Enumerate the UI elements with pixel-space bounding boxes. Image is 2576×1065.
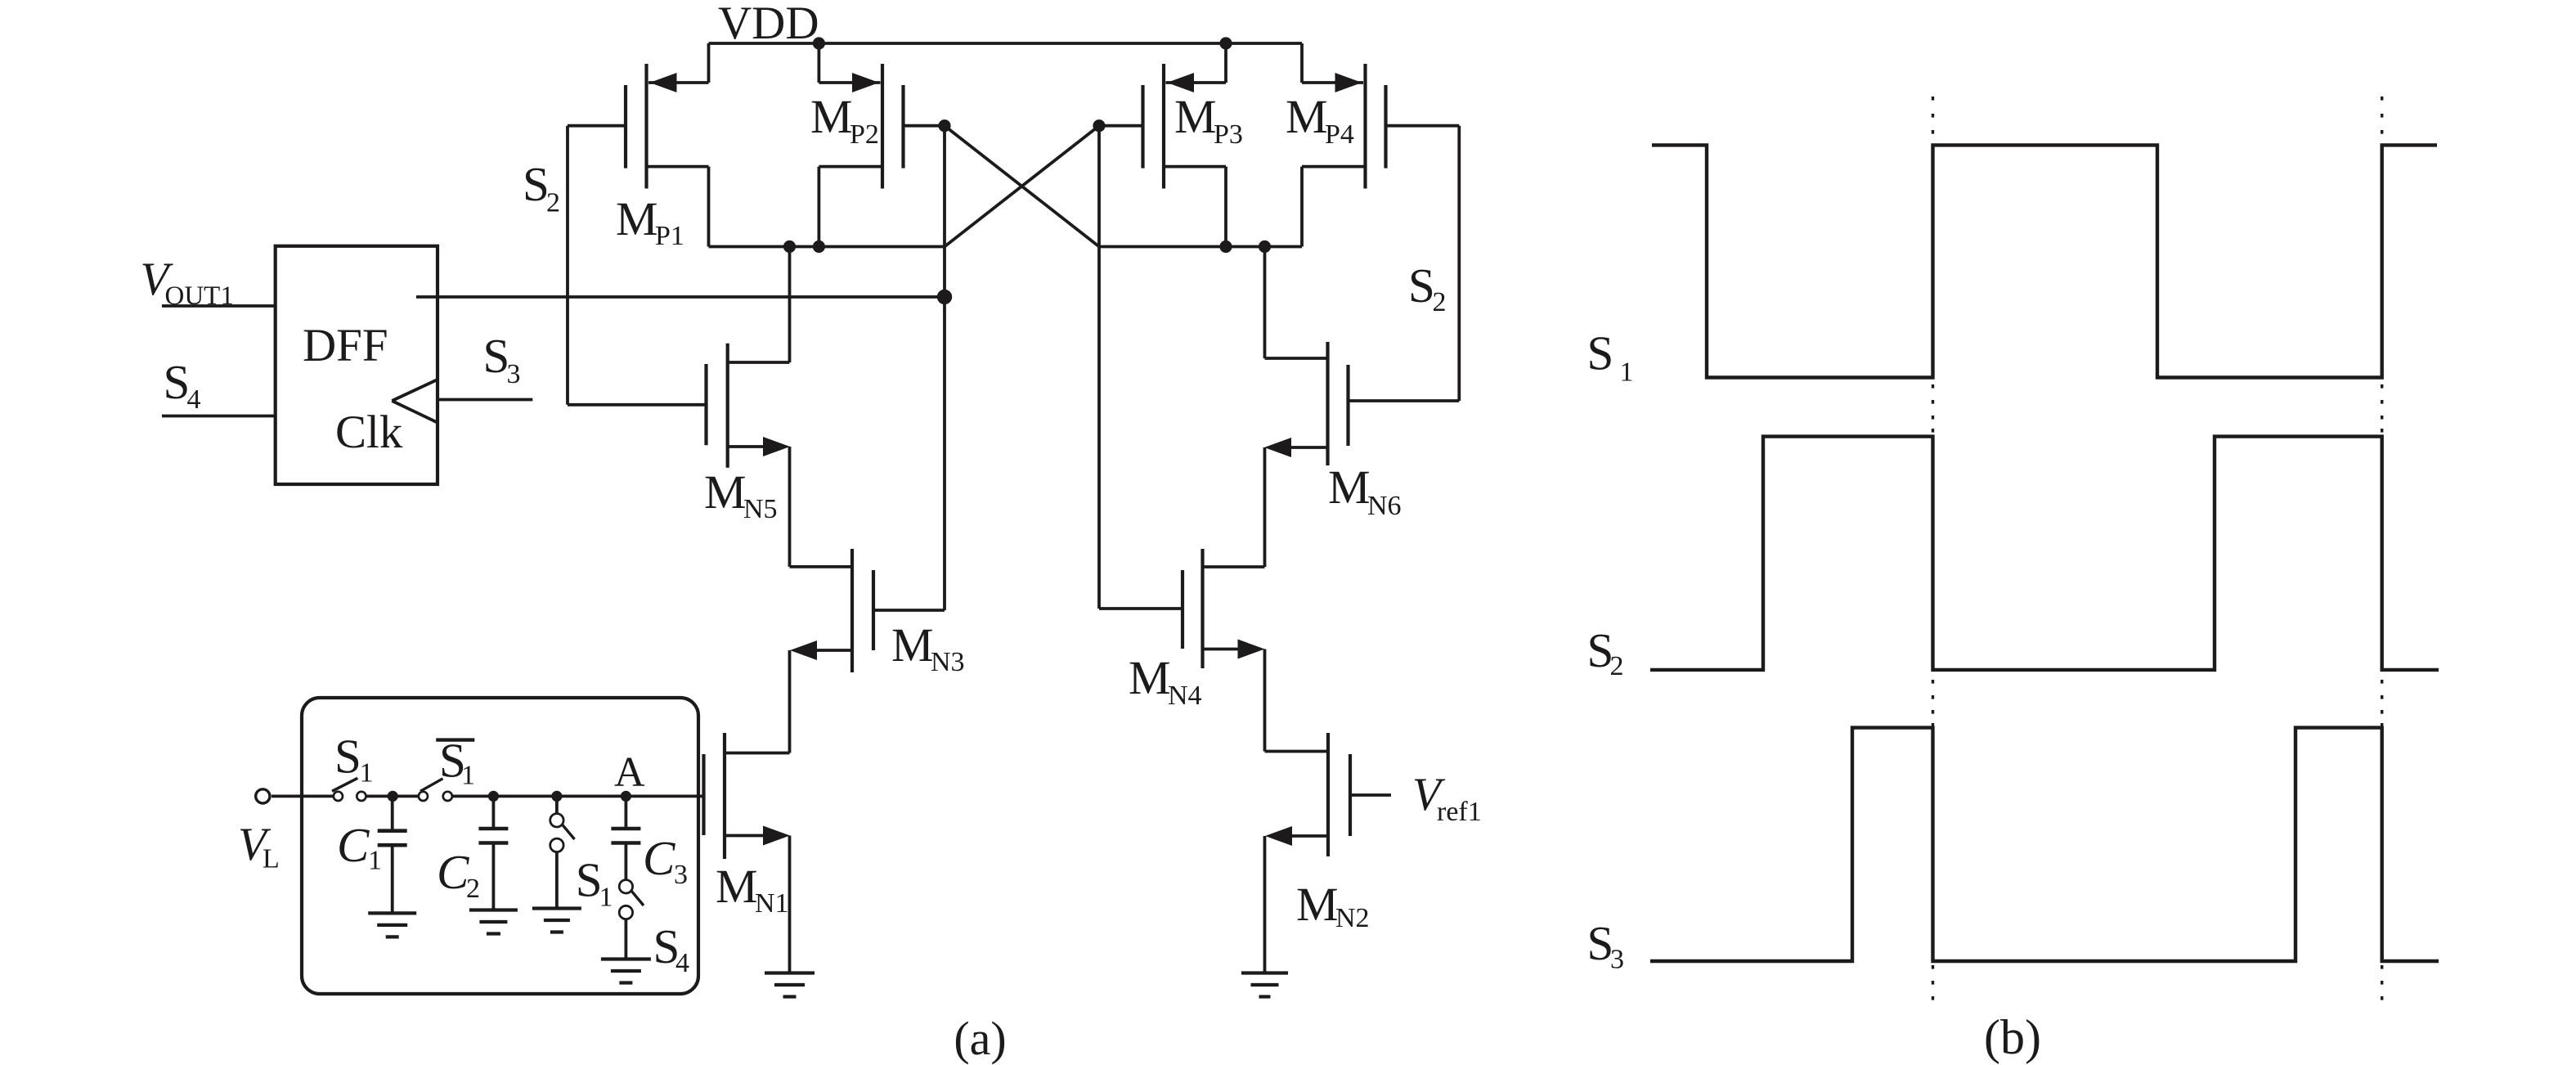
svg-text:2: 2 [466, 874, 480, 904]
svg-text:M: M [810, 90, 853, 143]
svg-text:S: S [1408, 258, 1435, 312]
svg-text:M: M [704, 465, 747, 519]
svg-text:M: M [1286, 90, 1328, 143]
svg-text:M: M [616, 192, 658, 245]
svg-text:C: C [337, 818, 370, 872]
svg-text:Clk: Clk [335, 407, 403, 458]
svg-text:A: A [614, 749, 645, 796]
svg-text:VDD: VDD [718, 0, 819, 49]
svg-text:M: M [1129, 651, 1171, 704]
svg-text:M: M [891, 618, 934, 672]
svg-text:2: 2 [1433, 287, 1447, 317]
svg-text:P3: P3 [1214, 119, 1243, 150]
svg-text:S: S [523, 157, 550, 211]
svg-text:N3: N3 [931, 647, 965, 677]
svg-text:S: S [1587, 326, 1614, 380]
svg-text:P2: P2 [850, 119, 879, 150]
svg-text:S: S [483, 329, 510, 383]
svg-text:M: M [716, 860, 758, 913]
svg-text:ref1: ref1 [1437, 797, 1482, 827]
svg-text:2: 2 [1610, 651, 1624, 681]
svg-text:M: M [1296, 878, 1339, 931]
svg-text:N5: N5 [743, 494, 778, 524]
svg-text:C: C [643, 831, 675, 885]
svg-text:DFF: DFF [303, 320, 388, 371]
svg-text:1: 1 [368, 846, 382, 876]
svg-text:N2: N2 [1335, 903, 1370, 933]
svg-text:2: 2 [546, 188, 560, 218]
svg-text:L: L [263, 844, 280, 874]
svg-text:P4: P4 [1325, 119, 1354, 150]
svg-text:S: S [334, 730, 361, 784]
svg-text:(b): (b) [1984, 1010, 2041, 1064]
svg-text:1: 1 [599, 882, 613, 912]
svg-text:3: 3 [674, 860, 688, 890]
svg-text:M: M [1174, 90, 1217, 143]
svg-text:1: 1 [461, 761, 475, 791]
svg-text:3: 3 [1610, 945, 1624, 975]
svg-text:N1: N1 [755, 888, 789, 919]
svg-text:(a): (a) [954, 1012, 1006, 1065]
svg-text:N4: N4 [1168, 681, 1202, 711]
svg-text:4: 4 [187, 384, 201, 415]
svg-text:P1: P1 [655, 221, 684, 251]
svg-text:3: 3 [507, 359, 521, 389]
svg-text:S: S [164, 355, 191, 409]
svg-text:4: 4 [675, 948, 689, 978]
svg-text:1: 1 [360, 758, 374, 789]
svg-text:1: 1 [1620, 357, 1634, 388]
svg-text:N6: N6 [1367, 491, 1402, 521]
svg-text:C: C [437, 845, 469, 899]
svg-text:M: M [1328, 461, 1371, 514]
svg-text:OUT1: OUT1 [165, 281, 234, 311]
